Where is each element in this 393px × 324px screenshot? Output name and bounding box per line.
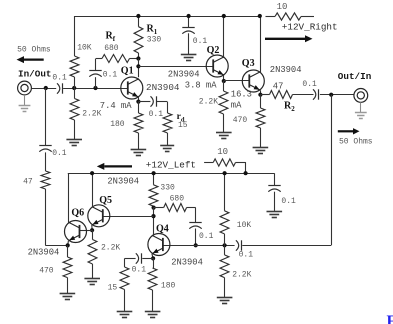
svg-text:0.1: 0.1 xyxy=(281,197,296,206)
svg-text:15: 15 xyxy=(178,121,188,130)
svg-text:2N3904: 2N3904 xyxy=(270,65,302,75)
label rd 15 xyxy=(178,121,188,130)
resistor R17 2.2K Q5 xyxy=(88,240,97,279)
svg-text:2N3904: 2N3904 xyxy=(28,247,60,257)
label Q4 2N3904 xyxy=(171,258,203,268)
transistor Q4 2N3904 xyxy=(148,234,170,256)
node rail Q2 xyxy=(222,14,226,18)
label R6 180 xyxy=(110,120,125,129)
node Q2 emitter xyxy=(222,79,226,83)
label R12 680 xyxy=(170,195,185,204)
wire Q6 emitter xyxy=(67,241,70,246)
node rail R1 xyxy=(136,14,140,18)
svg-text:47: 47 xyxy=(23,177,33,186)
label +12V_Left xyxy=(146,159,196,170)
transistor Q1 2N3904 xyxy=(121,77,143,99)
wire C6 to connector xyxy=(320,94,354,96)
svg-text:10K: 10K xyxy=(77,44,92,53)
label rd xyxy=(177,112,185,124)
label C3 0.1 xyxy=(103,71,118,80)
node rail C5 xyxy=(187,14,191,18)
label Q6 2N3904 xyxy=(28,247,60,257)
node R1 bottom xyxy=(136,56,140,60)
label 50 Ohms right xyxy=(339,137,373,146)
node 330 bottom xyxy=(152,206,156,210)
wire Q3 collector riser xyxy=(260,16,262,72)
svg-text:470: 470 xyxy=(233,116,248,125)
wire left column upper xyxy=(45,88,47,146)
label R1 xyxy=(147,24,158,37)
svg-text:Out/In: Out/In xyxy=(338,71,372,82)
wire emitter to 180 xyxy=(138,102,140,113)
ground R17 xyxy=(84,279,100,285)
svg-text:0.1: 0.1 xyxy=(239,251,254,260)
label Q3 xyxy=(242,58,255,69)
capacitor C6 0.1 output xyxy=(313,89,319,99)
wire 10K stem top xyxy=(74,16,76,56)
node rail 10 corner xyxy=(244,171,248,175)
svg-text:0.1: 0.1 xyxy=(193,37,208,46)
svg-text:0.1: 0.1 xyxy=(302,80,317,89)
svg-text:Rf: Rf xyxy=(106,31,116,44)
svg-text:16.3: 16.3 xyxy=(231,89,252,99)
svg-text:R2: R2 xyxy=(284,101,295,114)
node input junction xyxy=(44,86,48,90)
label R8 10 xyxy=(277,2,288,12)
transistor Q3 2N3904 xyxy=(242,70,264,92)
label C8 0.1 xyxy=(199,232,214,241)
wire left column lower xyxy=(45,189,67,246)
resistor R11 330 bottom xyxy=(149,173,158,207)
resistor R10 10 rail bottom xyxy=(204,159,246,173)
resistor rd 15 xyxy=(163,113,172,133)
svg-text:0.1: 0.1 xyxy=(132,265,147,274)
svg-text:2.2K: 2.2K xyxy=(82,110,101,119)
svg-text:R1: R1 xyxy=(147,24,158,37)
svg-text:Q5: Q5 xyxy=(99,195,112,206)
wire Q4 base row xyxy=(163,245,235,247)
wire 10K to node xyxy=(74,77,76,88)
svg-text:180: 180 xyxy=(161,282,176,291)
label R11 330 xyxy=(160,184,175,193)
wire Q5 emitter to Q6 base xyxy=(80,230,93,232)
wire C10 to 15 xyxy=(125,258,136,267)
label Q5 2N3904 xyxy=(107,176,139,186)
label C2 0.1 xyxy=(52,149,67,158)
label Q5 xyxy=(99,195,112,206)
wire Q4 collector riser xyxy=(153,208,155,236)
svg-text:10: 10 xyxy=(277,2,288,12)
svg-text:47: 47 xyxy=(273,81,284,91)
wire to R 47 left xyxy=(45,152,47,171)
svg-text:2N3904: 2N3904 xyxy=(107,176,139,186)
wire feedback riser xyxy=(95,59,97,72)
label 16.3 mA xyxy=(231,89,252,110)
svg-text:10K: 10K xyxy=(237,221,252,230)
node Q1 emitter xyxy=(136,100,140,104)
resistor Rf 680 xyxy=(96,55,138,63)
node rail Q5 xyxy=(90,171,94,175)
arrow left 50 Ohms xyxy=(17,56,44,63)
ground under J2 xyxy=(355,102,367,118)
wire input node xyxy=(63,88,127,90)
label C10 0.1 xyxy=(132,265,147,274)
label 47 xyxy=(273,81,284,91)
svg-text:Q2: Q2 xyxy=(207,45,220,56)
node output xyxy=(329,93,333,97)
wire emitter left to C10 xyxy=(142,258,153,260)
capacitor C2 0.1 left column xyxy=(39,146,51,152)
node 10K base xyxy=(223,243,227,247)
wire Q5 collector riser xyxy=(92,173,94,207)
label R10 10 xyxy=(217,147,228,157)
svg-text:2N3904: 2N3904 xyxy=(146,82,180,93)
label C7 0.1 xyxy=(281,197,296,206)
label R15 180 xyxy=(161,282,176,291)
wire 180 to ground xyxy=(138,133,140,150)
svg-text:2N3904: 2N3904 xyxy=(168,70,200,80)
resistor R6 180 xyxy=(134,113,143,133)
svg-text:50 Ohms: 50 Ohms xyxy=(339,137,373,146)
label R14 2.2K xyxy=(232,271,251,280)
label R3 47 xyxy=(23,177,33,186)
wire input xyxy=(31,88,56,90)
wire Q5 emitter to 2.2K xyxy=(92,230,94,239)
wire Q1 collector to Q2 base xyxy=(138,66,213,68)
wire C4 to rd xyxy=(157,102,168,114)
svg-text:+12V_Right: +12V_Right xyxy=(282,22,338,33)
svg-text:180: 180 xyxy=(110,120,125,129)
wire Q5 emitter xyxy=(91,225,93,230)
svg-text:50 Ohms: 50 Ohms xyxy=(17,45,51,54)
label R13 10K xyxy=(237,221,252,230)
label C6 0.1 xyxy=(302,80,317,89)
svg-text:10: 10 xyxy=(217,147,228,157)
resistor R4 10K xyxy=(70,56,79,77)
svg-text:0.1: 0.1 xyxy=(199,232,214,241)
svg-text:+12V_Left: +12V_Left xyxy=(146,159,196,170)
label R16 15 xyxy=(108,283,118,292)
ground R18 xyxy=(60,294,76,300)
ground R14 xyxy=(217,298,233,304)
wire Q2 collector riser xyxy=(223,16,225,57)
ground R6 xyxy=(131,150,147,156)
label C5 0.1 xyxy=(193,37,208,46)
resistor R1 330 xyxy=(134,16,143,59)
wire Q6 collector riser xyxy=(68,173,70,222)
wire Q4 emitter xyxy=(152,254,153,259)
ground R5 xyxy=(66,140,82,146)
svg-text:7.4 mA: 7.4 mA xyxy=(100,101,132,111)
capacitor C3 0.1 feedback xyxy=(89,71,101,77)
wire 470 to ground xyxy=(260,128,262,147)
resistor R3 47 left xyxy=(41,171,50,189)
label Q1 2N3904 xyxy=(146,82,180,93)
label 50 Ohms left xyxy=(17,45,51,54)
wire Q1 emitter xyxy=(138,97,140,101)
label R9 470 xyxy=(233,116,248,125)
wire Q6 emitter to 470 xyxy=(67,245,69,257)
svg-text:470: 470 xyxy=(39,267,54,276)
svg-text:2.2K: 2.2K xyxy=(101,244,120,253)
svg-text:2.2K: 2.2K xyxy=(232,271,251,280)
arrow right +12V_Right xyxy=(265,35,313,42)
node rail 330 xyxy=(152,171,156,175)
svg-text:680: 680 xyxy=(104,44,119,53)
transistor Q2 2N3904 xyxy=(206,55,228,77)
wire C3 to base node xyxy=(95,77,97,88)
svg-text:2N3904: 2N3904 xyxy=(171,258,203,268)
ground under J1 xyxy=(19,95,31,112)
label Q2 xyxy=(207,45,220,56)
wire emitter to 180 bottom xyxy=(148,258,157,311)
capacitor C4 0.1 emitter xyxy=(151,96,157,106)
capacitor C9 0.1 base series bottom xyxy=(236,240,242,250)
power rail top xyxy=(74,16,260,18)
label Q4 xyxy=(156,224,169,235)
wire emitter right xyxy=(138,101,150,103)
svg-text:0.1: 0.1 xyxy=(149,110,164,119)
label Q2 2N3904 xyxy=(168,70,200,80)
label Q3 2N3904 xyxy=(270,65,302,75)
connector J1 In/Out xyxy=(18,81,32,95)
arrow right 50 Ohms xyxy=(338,128,360,134)
label 3.8 mA xyxy=(185,80,217,90)
power rail bottom xyxy=(68,173,274,175)
label +12V_Right xyxy=(282,22,338,33)
connector J2 Out/In xyxy=(354,89,368,103)
capacitor C1 0.1 input series xyxy=(57,83,63,93)
label C9 0.1 xyxy=(239,251,254,260)
svg-text:mA: mA xyxy=(231,100,242,110)
node rail end xyxy=(258,14,262,18)
svg-text:0.1: 0.1 xyxy=(52,73,67,82)
wire Q4 collector to Q5 base xyxy=(103,216,154,218)
resistor R12 680 bottom xyxy=(154,204,196,212)
wire collector column Q1 xyxy=(138,59,140,78)
node Q3 emitter xyxy=(258,93,262,97)
ground R15 xyxy=(145,312,161,318)
resistor R16 15 bottom xyxy=(120,267,129,311)
node Q6 emitter xyxy=(66,243,70,247)
svg-text:0.1: 0.1 xyxy=(103,71,118,80)
svg-text:330: 330 xyxy=(160,184,175,193)
wire Q2 emitter to 2.2K xyxy=(223,81,225,91)
wire right column xyxy=(242,95,331,246)
label R17 2.2K xyxy=(101,244,120,253)
node collector tee xyxy=(136,64,140,68)
resistor R7 2.2K xyxy=(219,91,228,114)
label R7 2.2K xyxy=(199,98,218,107)
wire emitter to 470 xyxy=(260,95,262,108)
label Rf 680 xyxy=(104,44,119,53)
svg-text:F: F xyxy=(387,313,393,324)
label R2 xyxy=(284,101,295,114)
svg-text:2.2K: 2.2K xyxy=(199,98,218,107)
transistor Q6 2N3904 xyxy=(65,221,87,243)
label R5 2.2K xyxy=(82,110,101,119)
capacitor C8 0.1 feedback bottom xyxy=(189,208,201,246)
capacitor C5 0.1 rail decoupling xyxy=(182,16,194,55)
node C8 base xyxy=(194,243,198,247)
svg-text:In/Out: In/Out xyxy=(18,68,51,79)
ground C5 xyxy=(181,55,197,61)
label C4 0.1 xyxy=(149,110,164,119)
node rail 10K xyxy=(223,171,227,175)
blue letter figure caption xyxy=(387,313,393,324)
node base junction xyxy=(72,86,98,90)
svg-text:15: 15 xyxy=(108,283,118,292)
label 7.4 mA xyxy=(100,101,132,111)
label In/Out xyxy=(18,68,51,79)
svg-text:680: 680 xyxy=(170,195,185,204)
label R4 10K xyxy=(77,44,92,53)
ground rd xyxy=(160,146,174,152)
label Rf xyxy=(106,31,116,44)
capacitor C10 0.1 emitter bottom xyxy=(136,253,142,263)
ground R16 xyxy=(117,312,133,318)
wire 2.2K to ground xyxy=(74,120,76,140)
label R18 470 xyxy=(39,267,54,276)
svg-text:Q3: Q3 xyxy=(242,58,255,69)
wire 2.2K stem xyxy=(74,88,76,99)
svg-text:Q4: Q4 xyxy=(156,224,169,235)
wire 2.2K to ground xyxy=(223,114,225,133)
ground R7 xyxy=(216,133,232,139)
node Q4 collector tee xyxy=(151,214,155,218)
label Out/In xyxy=(338,71,372,82)
label R1 330 xyxy=(147,35,162,44)
resistor R18 470 bottom xyxy=(63,257,72,293)
resistor R9 470 xyxy=(256,108,265,128)
label C1 0.1 xyxy=(52,73,67,82)
svg-text:Q6: Q6 xyxy=(71,208,84,219)
resistor R13 10K bottom xyxy=(220,173,229,245)
label Q1 xyxy=(121,66,134,77)
wire Q2 emitter xyxy=(223,75,225,81)
svg-text:330: 330 xyxy=(147,35,162,44)
node Q5 emitter xyxy=(90,228,94,232)
svg-text:Q1: Q1 xyxy=(121,66,134,77)
resistor R14 2.2K bottom xyxy=(220,245,229,297)
wire Q2 emitter to Q3 base xyxy=(224,80,250,82)
ground C7 xyxy=(267,212,283,218)
svg-text:3.8 mA: 3.8 mA xyxy=(185,80,217,90)
wire rd to ground xyxy=(167,133,169,145)
label Q6 xyxy=(71,208,84,219)
ground R9 xyxy=(253,148,269,154)
svg-text:0.1: 0.1 xyxy=(52,149,67,158)
wire Q3 emitter xyxy=(260,90,262,94)
resistor R5 2.2K xyxy=(70,99,79,121)
resistor R2 47 xyxy=(260,91,313,99)
resistor R8 10 rail xyxy=(266,13,315,20)
arrow left +12V_Left xyxy=(97,163,132,170)
node Q4 emitter xyxy=(151,256,155,260)
capacitor C7 0.1 rail bottom xyxy=(268,173,280,211)
transistor Q5 2N3904 xyxy=(88,205,110,227)
